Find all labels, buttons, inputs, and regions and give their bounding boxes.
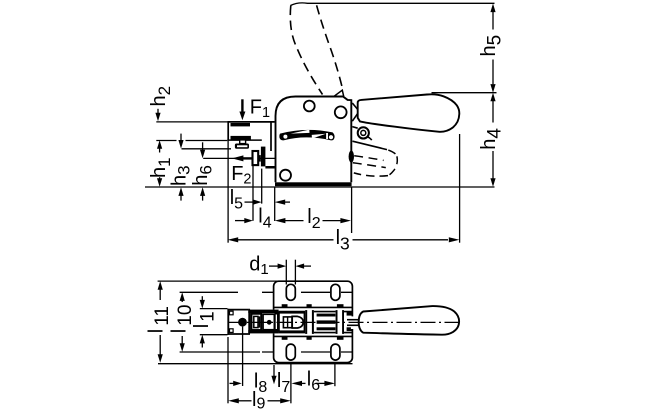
extension line bottom slot-right center [334,364,336,386]
slot bottom-left [286,344,295,360]
rod end squares [230,311,234,315]
slot top-left [286,284,295,300]
extension line handle right [459,134,461,243]
dimension l9 [228,398,239,403]
clamping screw neck [240,140,246,144]
handle grip (top view) [359,306,459,335]
svg-text:h6: h6 [190,165,216,186]
base plate (side view) [275,182,352,186]
label h6 [190,165,216,186]
force arrow F2 [242,157,252,159]
spring bars [317,314,336,317]
slot top-right [331,284,340,300]
rod bracket box [248,310,278,334]
dimension h1 line [157,140,162,149]
svg-text:l3: l3 [336,227,350,254]
extension line pin left [261,169,263,204]
link pivot ring [358,127,369,138]
extension line arm bottom (h1) [156,140,176,142]
dimension h2 arrow [157,109,159,114]
svg-text:l4: l4 [258,206,271,232]
d1 extension lines [285,260,287,285]
extension lines left side [158,280,278,282]
channel walls across plate [274,306,353,308]
C piece [252,314,262,330]
dimension l6 [291,381,302,386]
extension line body left [274,188,276,222]
slot center line bottom [262,351,352,353]
mounting plate [274,281,353,362]
arm bar lower [231,136,251,140]
dimension l1 (outside arrows) [201,296,203,301]
svg-text:h4: h4 [478,128,506,150]
dimension h3 arrows [180,134,182,141]
svg-text:F2: F2 [231,163,251,188]
clamping screw (top view) [238,318,247,327]
clamp arm open position: dashed outline [388,150,396,155]
extension line plate left with end arrow [273,365,275,378]
neck clearance [351,316,360,329]
dimension l4 (outside arrows) [235,220,247,222]
svg-text:F1: F1 [250,96,270,121]
open handle dashed outline (right edge) [317,5,343,89]
extension line arm top (h2) [156,121,227,123]
dimension h5 line [490,4,495,13]
dimension h4 line [490,93,495,102]
extension line handle top [432,92,497,94]
link lower arc [368,137,372,140]
slot center line top [262,291,352,293]
step to body [265,166,274,169]
body tabs [282,304,288,307]
label h4 [478,128,506,150]
curved slot in body [279,130,334,141]
arm pivot boss (filled) [349,151,354,163]
bracket left edge [227,121,229,140]
label h2 [148,86,174,107]
handle (closed position) [358,94,460,132]
rod spool [253,151,259,165]
spool nub [258,155,261,162]
dimension l8 [230,382,235,384]
small peak where dashed handle meets body [334,90,344,96]
dimension l2 [275,218,286,223]
body cross pillar right [336,310,344,334]
handle clevis lines [352,103,359,111]
body hole bottom [280,170,291,181]
dimension h6 arrows [202,142,204,150]
force arrow F1 [241,99,243,112]
TOP VIEW [228,281,462,386]
label h1 [148,157,174,178]
label h5 [478,35,506,57]
push rod center line [203,157,275,159]
SIDE VIEW [145,3,506,188]
TOP VIEW DIMENSIONS [146,254,353,413]
pivot dot box [263,314,274,330]
body hole top-left [304,101,315,112]
extension line spool left [252,165,254,220]
dimension l11 [158,281,163,290]
svg-text:l6: l6 [307,369,320,395]
extension line screw top (h3) [182,148,232,150]
dimension l3 [228,237,239,242]
slot bottom-right [331,344,340,360]
clamping screw head [235,144,249,149]
handle pivot bars [347,312,353,316]
svg-text:h5: h5 [478,35,506,57]
svg-text:l7: l7 [277,370,290,396]
svg-text:l2: l2 [307,206,320,232]
open handle dashed outline (left edge) [290,6,322,95]
center line (dash-dot) [229,321,462,323]
clamp arm bracket top line [227,121,274,123]
body cross pillar left [305,310,314,334]
body hole top-right [335,106,347,118]
push rod (top view) [228,309,250,311]
ground line [145,186,495,188]
link upper edge [352,127,357,129]
dimension d1 (outside arrows) [269,265,279,267]
bracket bottom line [227,139,261,141]
extension line body right [351,188,353,234]
extension line rod end [227,337,229,403]
arm bar upper [231,123,251,126]
svg-text:h2: h2 [148,86,174,107]
extension line bottom slot-left center [290,363,292,404]
handle neck [347,319,360,321]
SIDE VIEW DIMENSIONS [148,86,460,254]
bracket right vertical [270,122,272,151]
label h3 [168,165,193,186]
dimension l10 [180,292,185,301]
extension line bracket left [227,140,229,242]
clamp body plate [276,97,352,183]
svg-text:d1: d1 [249,254,268,279]
bracket leg pin [261,147,266,167]
svg-text:l5: l5 [230,187,243,213]
screw axis extension line [242,327,244,386]
plunger box [279,313,305,332]
clamp arm open position: solid top edge [353,141,388,149]
extension line top of open handle [291,3,495,6]
